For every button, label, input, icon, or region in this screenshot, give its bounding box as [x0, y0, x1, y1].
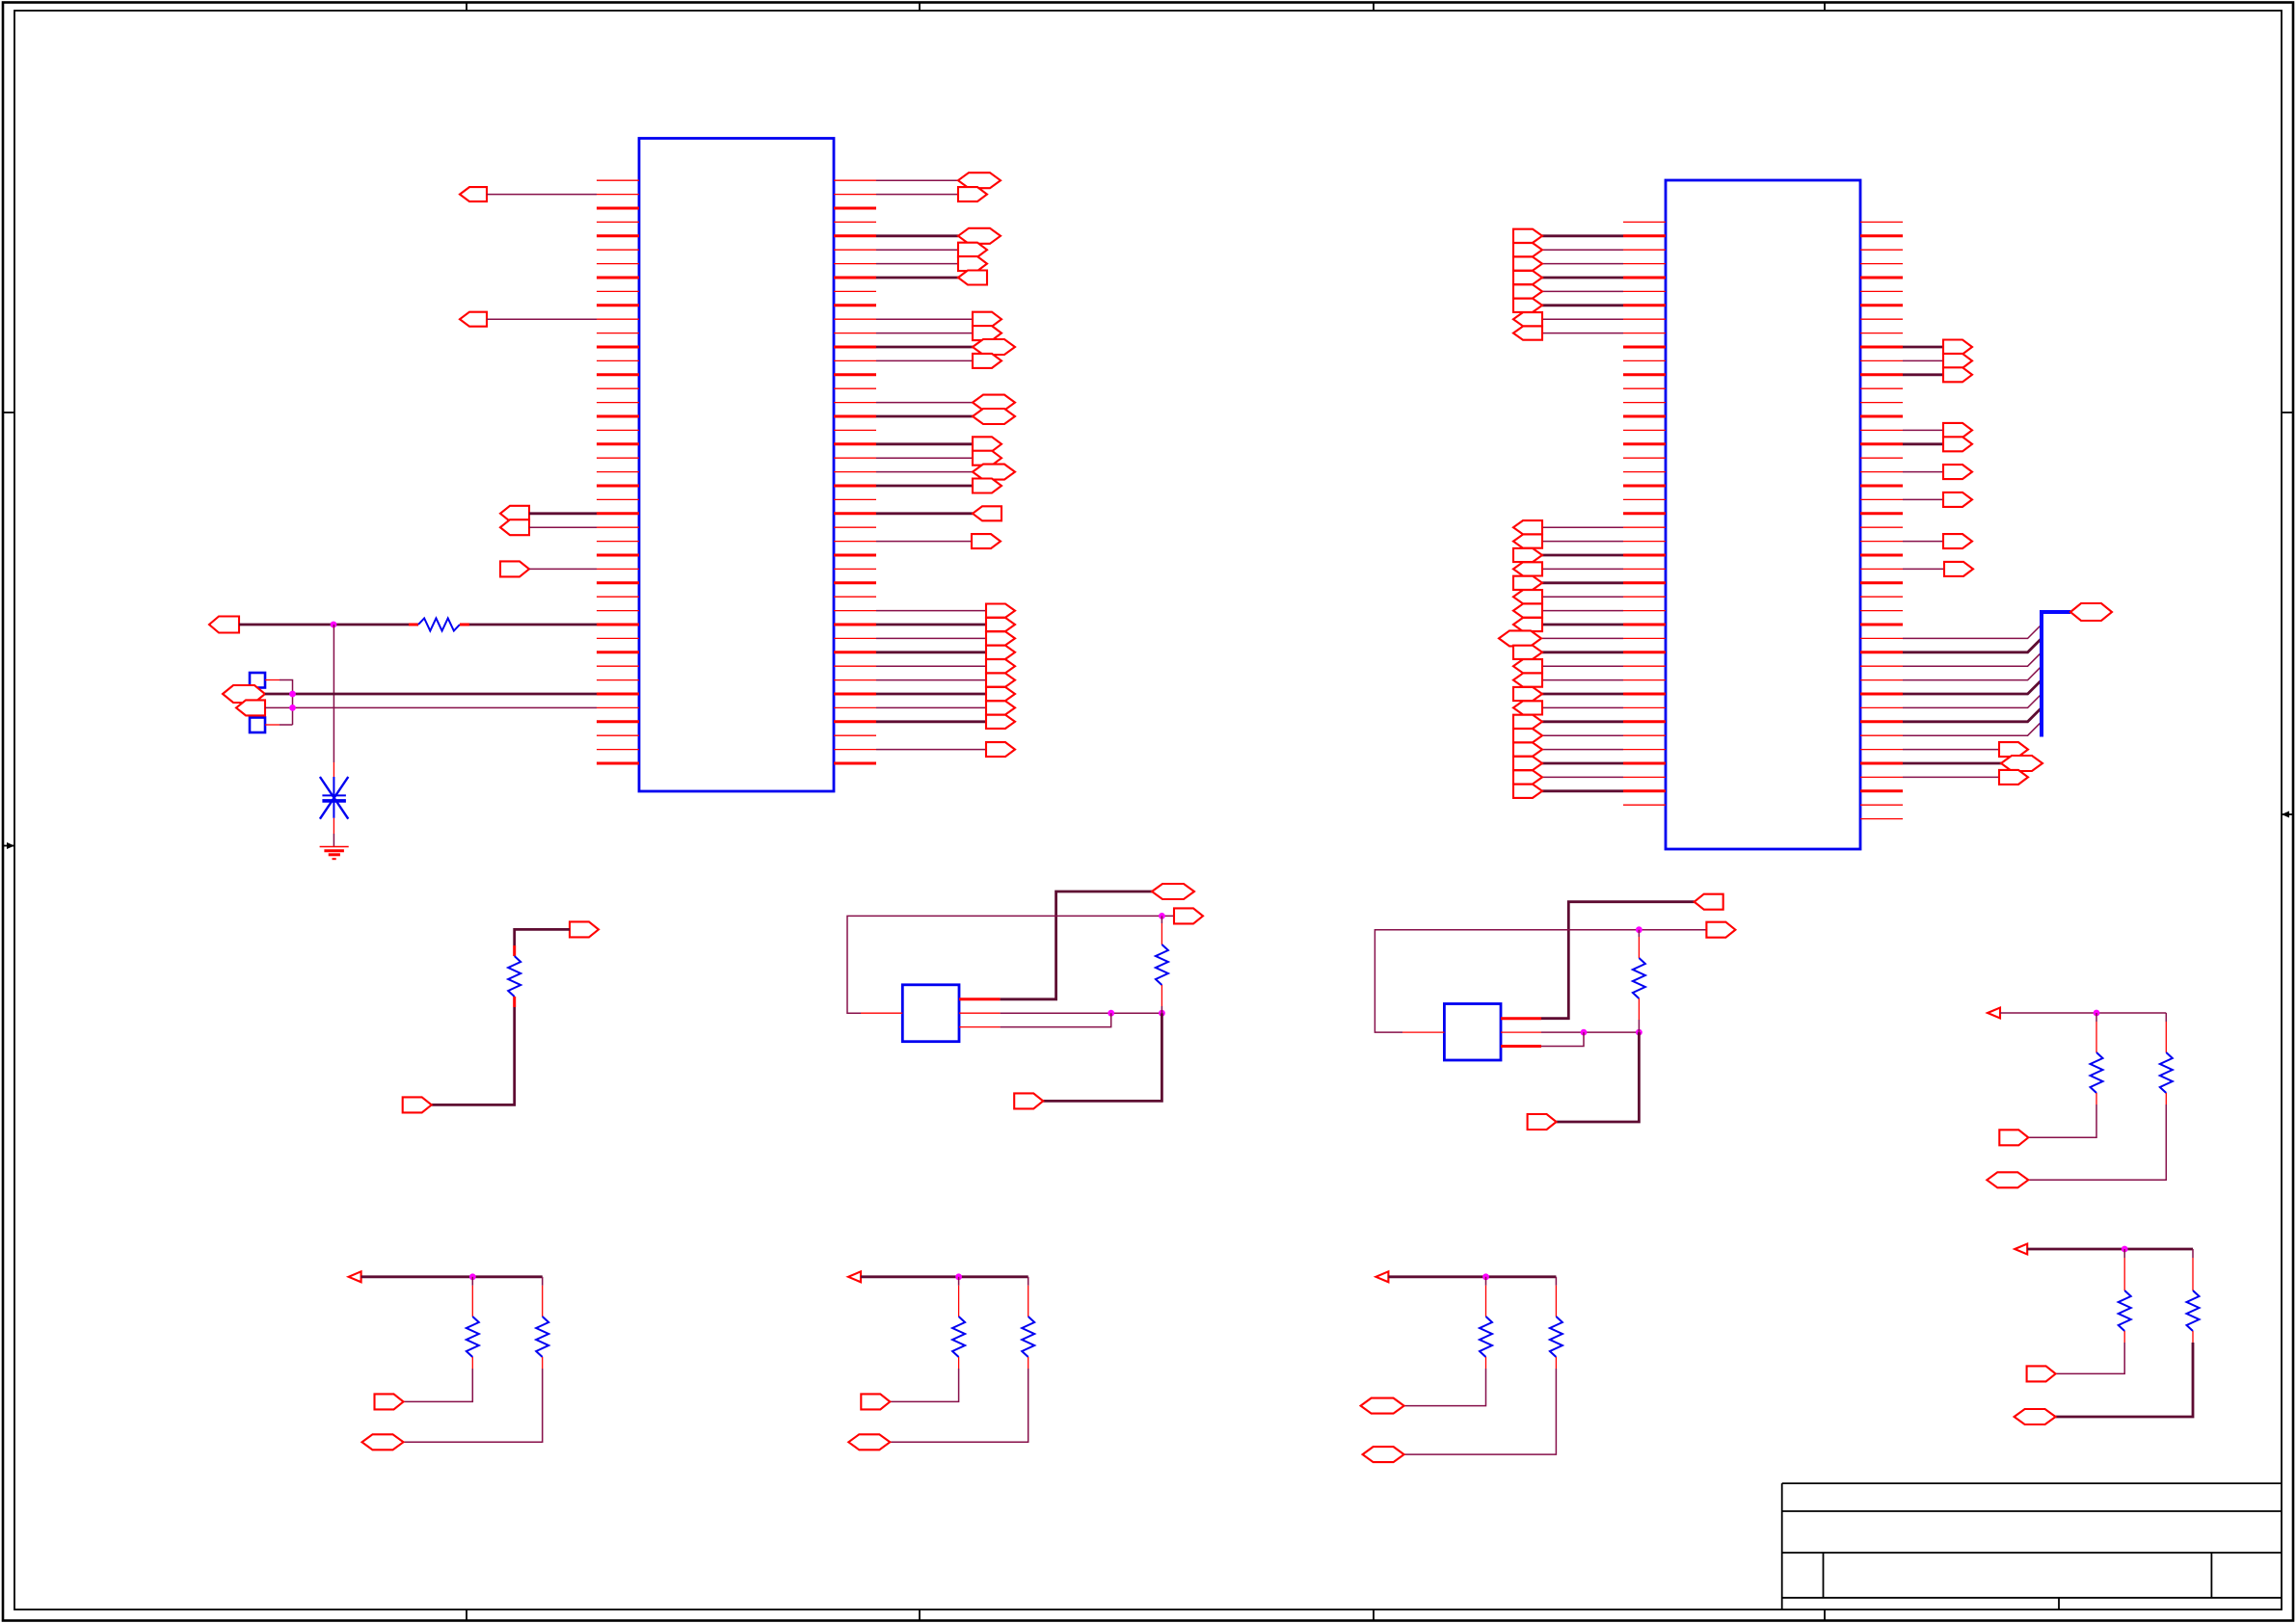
J1 pin stub — [265, 679, 280, 681]
port P4 to U1 pin 26 — [500, 519, 597, 535]
resistor R3 — [1156, 916, 1168, 1013]
title block — [1782, 1483, 2282, 1610]
port P6 — [209, 617, 239, 633]
port Q2 on U2 pin 11 — [1903, 354, 1972, 368]
divider F junction — [2122, 1246, 2128, 1253]
divider E input arrow — [1988, 1008, 2000, 1019]
wire port P6 to resistor R1 — [239, 624, 409, 626]
divider E top wire — [2000, 1012, 2166, 1014]
divider B resistor Rb — [1022, 1277, 1034, 1369]
wire mid net to port M5 — [1043, 1013, 1161, 1101]
divider B junction — [955, 1273, 962, 1280]
wire port M1 to R2 — [515, 929, 570, 945]
divider A port A — [375, 1394, 404, 1409]
junction M4 node — [1159, 913, 1165, 919]
port stack I1-I8 on U2 pins 2-9 — [1513, 229, 1623, 340]
port O3 on U1 pin 5 — [876, 228, 1001, 244]
divider C port A (hex) — [1361, 1398, 1404, 1414]
divider C wire Ra to port — [1404, 1369, 1486, 1406]
wire J2 to bracket — [280, 724, 293, 726]
divider A top wire — [361, 1275, 543, 1278]
divider C junction — [1482, 1273, 1489, 1280]
port O12 on U1 pin 18 — [876, 409, 1015, 424]
junction on P8 wire — [289, 705, 296, 711]
divider A input arrow — [349, 1271, 361, 1282]
divider B port B (hex) — [848, 1434, 890, 1450]
divider E port B (hex) — [1987, 1172, 2028, 1187]
divider F port A — [2027, 1366, 2056, 1381]
divider F port B (hex) — [2015, 1409, 2056, 1424]
port Q6 on U2 pin 19 — [1903, 465, 1972, 479]
port Q13 on U2 pin 41 — [1903, 770, 2028, 785]
junction mid net 2 — [1159, 1010, 1165, 1017]
right border zone tick — [2282, 412, 2293, 413]
resistor R1 — [409, 619, 469, 631]
wire R1 to U1 pin 33 — [469, 624, 597, 626]
port Q8 on U2 pin 24 — [1903, 534, 1972, 548]
divider E wire Rb to port B — [2028, 1104, 2166, 1180]
port IN1 to U1 pin 2 — [460, 187, 597, 201]
IC U1 body — [639, 139, 834, 792]
divider B wire Rb to port B — [890, 1369, 1028, 1442]
port M2 — [403, 1097, 432, 1112]
junction mid net 4 — [1636, 1029, 1642, 1036]
junction mid net 3 — [1581, 1029, 1588, 1036]
bus entry wires U2 pins 31-38 — [1903, 625, 2042, 735]
surge arrester D1 — [320, 777, 348, 819]
divider E port A — [1999, 1130, 2028, 1145]
port M8 — [1528, 1114, 1557, 1130]
junction mid net 1 — [1108, 1010, 1114, 1017]
wire J1 to bracket — [280, 680, 293, 726]
port O2 on U1 pin 2 — [876, 187, 987, 201]
port M6 — [1695, 894, 1723, 910]
port pair P3 to U1 pin 25 — [500, 506, 597, 521]
port O14 on U1 pin 21 — [876, 451, 1001, 466]
divider E resistor Ra — [2091, 1013, 2103, 1104]
wire Q2 top pin to port M6 — [1541, 902, 1695, 1019]
left border centre arrow — [3, 842, 14, 849]
divider A junction — [469, 1273, 476, 1280]
U1 right pins — [834, 180, 876, 763]
port P8 — [236, 700, 265, 715]
J2 pin stub — [265, 724, 280, 726]
divider A wire Ra to port — [404, 1369, 473, 1401]
divider F resistor Rb — [2187, 1249, 2200, 1343]
divider B input arrow — [848, 1271, 861, 1282]
top border zone ticks — [467, 3, 1825, 12]
left border zone tick — [3, 412, 14, 413]
port Q10 (hex) on bus B1 — [2070, 603, 2112, 621]
port Q12 (hex) on U2 pin 40 — [1903, 756, 2042, 771]
divider C resistor Rb — [1550, 1277, 1562, 1369]
port O10 on U1 pin 14 — [876, 354, 1001, 368]
port Q7 on U2 pin 21 — [1903, 492, 1972, 507]
junction M7 node — [1636, 926, 1642, 933]
pin stub D1 top — [333, 762, 334, 777]
divider A wire Rb to port B — [404, 1369, 543, 1442]
IC U2 body — [1666, 180, 1860, 849]
port P5 to U1 pin 29 — [500, 561, 597, 576]
wire Q2 mid pin net — [1541, 1031, 1639, 1033]
divider C wire Rb to port B — [1404, 1369, 1557, 1454]
wire D1 to ground — [333, 834, 334, 847]
port O15 on U1 pin 22 — [876, 465, 1015, 480]
ground — [320, 847, 349, 860]
port O5 on U1 pin 7 — [876, 256, 987, 271]
right border centre arrow — [2282, 811, 2293, 818]
divider F top wire — [2027, 1248, 2193, 1251]
component Q2 (square) — [1444, 1004, 1501, 1061]
port O9 on U1 pin 13 — [876, 339, 1015, 355]
wire P8 to U1 pin 39 — [265, 706, 597, 708]
wire mid net to port M8 — [1557, 1032, 1640, 1122]
Q2 pin stubs — [1402, 1019, 1541, 1047]
port O7 on U1 pin 11 — [876, 312, 1001, 327]
component J2 (square) — [250, 718, 265, 733]
port Q9 on U2 pin 26 — [1903, 562, 1973, 576]
port M5 — [1014, 1093, 1043, 1108]
divider F input arrow — [2015, 1244, 2027, 1255]
component Q1 (square) — [902, 985, 959, 1042]
wire R2 to port M2 — [432, 1007, 515, 1104]
bottom border zone ticks — [467, 1610, 1825, 1621]
port Q5 on U2 pin 17 — [1903, 437, 1972, 451]
port M3 (hex) — [1152, 884, 1194, 899]
wire Q2 bottom pin — [1541, 1032, 1584, 1046]
port M7 — [1706, 922, 1735, 938]
port stack O18-O26 on U1 pins 32-40 — [876, 604, 1015, 729]
bus B1 — [2042, 612, 2070, 737]
divider C port B (hex) — [1363, 1447, 1404, 1462]
divider F wire Ra to port — [2056, 1343, 2125, 1373]
divider E resistor Rb — [2160, 1013, 2173, 1104]
port O8 on U1 pin 12 — [876, 326, 1001, 340]
wire Q1 bottom pin — [1001, 1013, 1111, 1026]
divider A port B (hex) — [362, 1434, 404, 1450]
port Q4 on U2 pin 16 — [1903, 423, 1972, 438]
port O11 on U1 pin 17 — [876, 395, 1015, 411]
port O27 on U1 pin 42 — [876, 742, 1015, 757]
U2 left pins — [1623, 222, 1666, 805]
divider B port A — [861, 1394, 890, 1409]
pin stub D1 bottom — [333, 818, 334, 834]
wire Q1 mid pin net — [1001, 1012, 1162, 1014]
port O4 on U1 pin 6 — [876, 243, 987, 257]
port M1 — [570, 921, 599, 937]
resistor R4 — [1633, 930, 1645, 1032]
wire node A down to D1 — [333, 625, 334, 762]
port O6 on U1 pin 8 — [876, 271, 987, 285]
divider A resistor Ra — [467, 1277, 479, 1369]
port Q11 on U2 pin 39 — [1903, 742, 2028, 757]
divider C resistor Ra — [1480, 1277, 1492, 1369]
wire P7 to U1 pin 38 — [265, 693, 597, 696]
divider F resistor Ra — [2119, 1249, 2131, 1343]
junction node A — [331, 622, 337, 628]
wire Q1 top pin to port M3 — [1001, 891, 1152, 999]
port Q3 on U2 pin 12 — [1903, 367, 1972, 382]
wire Q1 left pin to port M4 — [847, 916, 1174, 1013]
wire Q2 left pin to port M7 — [1375, 930, 1706, 1032]
divider B wire Ra to port — [890, 1369, 958, 1401]
divider B top wire — [861, 1275, 1028, 1278]
divider E wire Ra to port — [2028, 1104, 2096, 1137]
port O1 on U1 pin 1 — [876, 173, 1001, 188]
divider A resistor Rb — [536, 1277, 548, 1369]
divider B resistor Ra — [952, 1277, 965, 1369]
U1 left pins — [597, 180, 639, 763]
port O13 on U1 pin 20 — [876, 437, 1001, 451]
U2 right pins — [1860, 222, 1903, 818]
junction on P7 wire — [289, 691, 296, 698]
divider F wire Rb to port B — [2056, 1343, 2193, 1417]
port Q1 on U2 pin 10 — [1903, 340, 1972, 355]
port M4 — [1174, 908, 1203, 923]
component J1 (square) — [250, 673, 265, 688]
divider E junction — [2094, 1010, 2100, 1017]
resistor R2 — [508, 945, 521, 1007]
divider C top wire — [1388, 1275, 1556, 1278]
port O17 on U1 pin 25 — [876, 506, 1001, 520]
port O16 on U1 pin 23 — [876, 479, 1001, 493]
Q1 pin stubs — [861, 999, 1001, 1027]
port O18 on U1 pin 27 — [876, 534, 1001, 548]
port IN2 to U1 pin 11 — [460, 312, 597, 327]
port stack I9-I28 on U2 pins 23-42 — [1499, 520, 1623, 798]
port P7 (hex) — [223, 685, 265, 703]
divider C input arrow — [1375, 1271, 1388, 1282]
